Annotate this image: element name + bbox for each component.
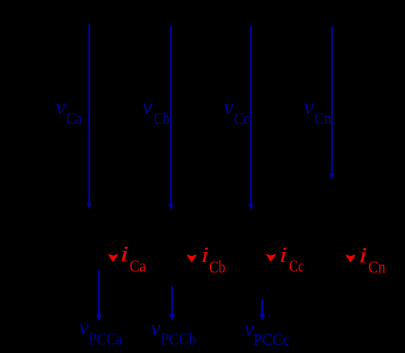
current arrow i_Cc — [267, 255, 275, 261]
svg-text:i: i — [201, 242, 209, 267]
label i_Cb — [201, 242, 226, 276]
wire arrow v_PCCb — [169, 287, 175, 321]
svg-text:i: i — [358, 243, 367, 268]
label v_Cn — [304, 94, 332, 128]
svg-text:PCCb: PCCb — [161, 330, 197, 349]
current arrow i_Cn — [346, 255, 354, 261]
svg-text:i: i — [279, 242, 287, 267]
current arrow i_Ca — [109, 255, 117, 261]
label v_Cb — [142, 94, 169, 128]
wire arrow v_Cb — [169, 25, 174, 210]
wire arrow v_Cn — [329, 26, 334, 180]
label v_PCCc — [244, 316, 289, 349]
wire arrow v_Cc — [249, 25, 254, 210]
svg-text:v: v — [151, 315, 161, 340]
svg-text:v: v — [79, 314, 89, 339]
label i_Cn — [358, 243, 385, 277]
wire arrow v_PCCa — [96, 270, 102, 321]
label v_Cc — [224, 94, 251, 128]
svg-text:v: v — [142, 94, 152, 119]
svg-text:v: v — [224, 94, 234, 119]
label v_Ca — [56, 94, 83, 128]
wire arrow v_PCCc — [259, 300, 265, 320]
svg-text:Cb: Cb — [209, 257, 225, 276]
svg-text:PCCa: PCCa — [89, 329, 123, 348]
label i_Ca — [120, 241, 147, 276]
label i_Cc — [279, 242, 304, 276]
svg-text:Ca: Ca — [66, 109, 82, 128]
svg-text:Cn: Cn — [368, 257, 385, 276]
svg-text:Cn: Cn — [314, 109, 331, 128]
label v_PCCb — [151, 315, 197, 348]
svg-text:Ca: Ca — [130, 257, 147, 276]
label v_PCCa — [79, 314, 123, 348]
svg-text:v: v — [304, 94, 314, 119]
svg-text:i: i — [120, 241, 129, 266]
current arrow i_Cb — [188, 255, 196, 261]
svg-text:PCCc: PCCc — [253, 330, 289, 349]
svg-text:Cc: Cc — [234, 109, 250, 128]
svg-text:v: v — [56, 94, 66, 119]
svg-text:Cb: Cb — [154, 109, 170, 128]
wire arrow v_Ca — [87, 24, 92, 209]
svg-text:Cc: Cc — [289, 257, 304, 276]
